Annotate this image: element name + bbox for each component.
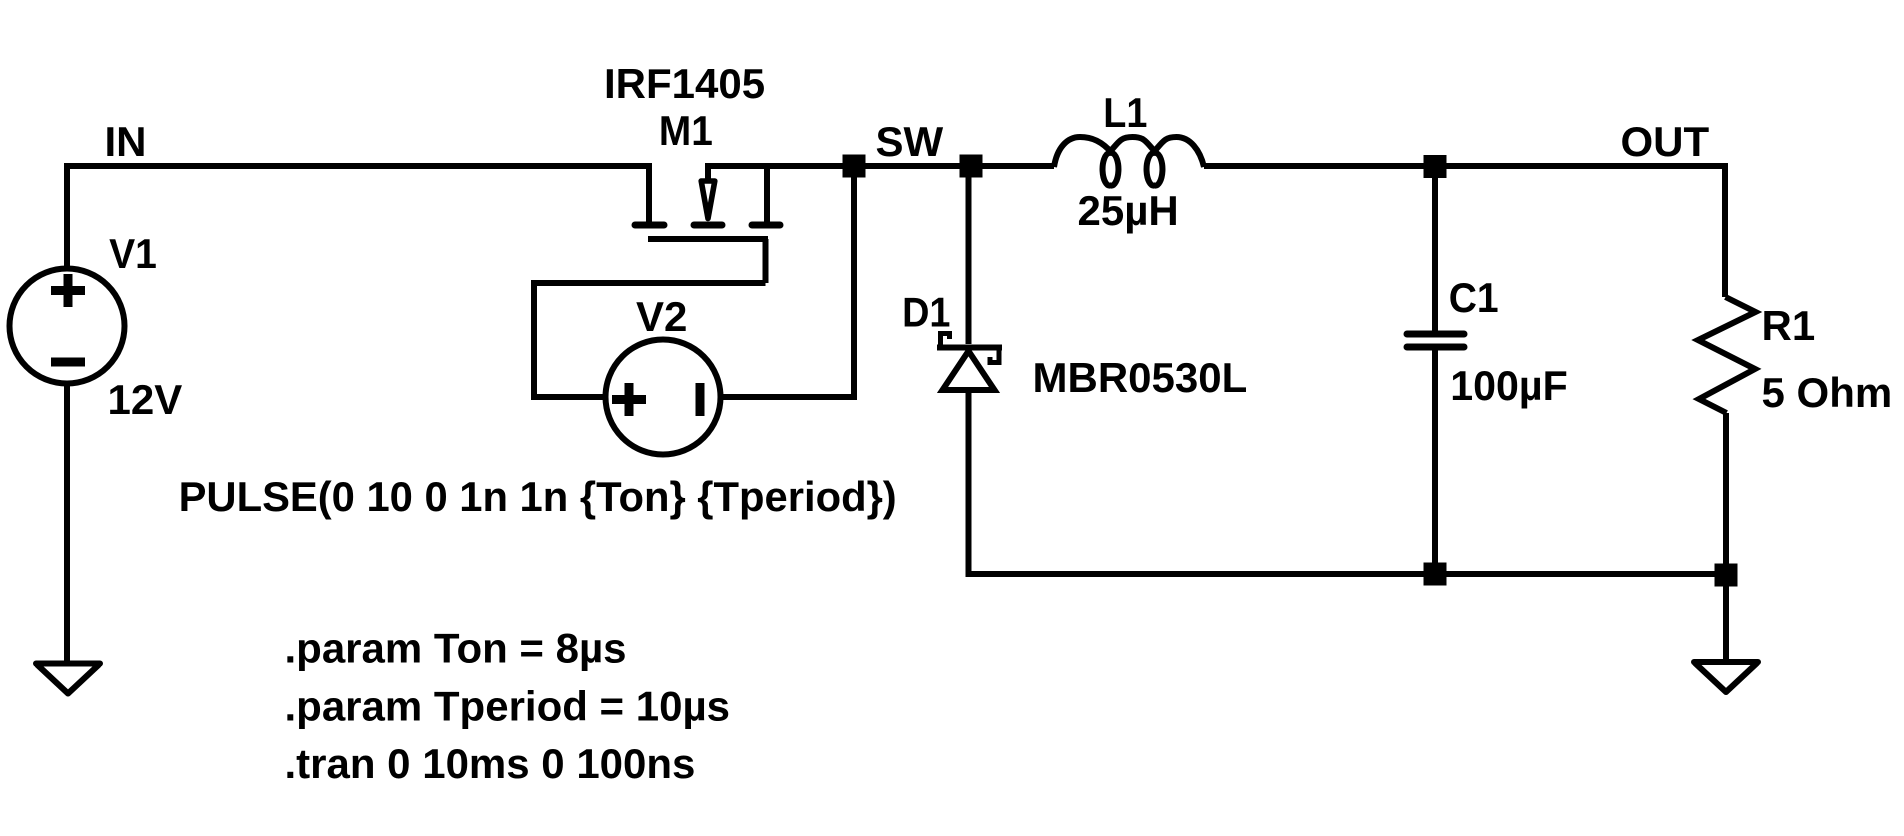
- V1 plus sign: [51, 274, 85, 307]
- wire OUT corner down to R1: [1722, 163, 1728, 297]
- transistor M1 source contact bar: [752, 222, 780, 229]
- svg-text:MBR0530L: MBR0530L: [1033, 354, 1248, 401]
- svg-text:V2: V2: [636, 293, 687, 340]
- svg-text:M1: M1: [659, 107, 713, 155]
- node junction square at R1 bottom: [1715, 564, 1738, 587]
- transistor M1 bulk arrow: [701, 181, 715, 219]
- svg-text:V1: V1: [109, 230, 157, 278]
- diode D1 cathode bar with schottky hooks: [937, 345, 1002, 351]
- V2 plus sign: [612, 383, 646, 416]
- transistor M1 bulk stub: [705, 163, 711, 180]
- wire gate left vertical: [531, 280, 537, 397]
- wire ground lead right: [1723, 586, 1729, 661]
- wire D1 bottom lead: [966, 390, 972, 574]
- V1 minus sign: [51, 358, 85, 367]
- node junction square at C1 bottom: [1424, 563, 1447, 586]
- svg-text:R1: R1: [1762, 302, 1816, 349]
- wire L1 to C1: [1204, 163, 1725, 169]
- wire IN top horizontal: [67, 163, 649, 169]
- resistor R1 zigzag: [1698, 297, 1756, 413]
- capacitor C1 top plate: [1407, 331, 1464, 338]
- wire C1 bottom lead: [1432, 347, 1438, 574]
- svg-text:25µH: 25µH: [1078, 187, 1179, 234]
- node junction square at C1 top: [1424, 155, 1447, 178]
- svg-text:100µF: 100µF: [1450, 362, 1568, 409]
- wire D1 top lead: [966, 166, 972, 344]
- wire ground bus bottom: [969, 571, 1727, 574]
- svg-text:IRF1405: IRF1405: [604, 60, 765, 107]
- wire SW down to V2: [851, 166, 857, 397]
- transistor M1 drain stub: [646, 163, 652, 222]
- wire C1 top lead: [1432, 166, 1438, 331]
- voltage source V1: [10, 269, 125, 384]
- ground right: [1694, 659, 1758, 665]
- svg-text:.param Ton = 8µs: .param Ton = 8µs: [285, 625, 627, 672]
- voltage source V2: [606, 340, 721, 455]
- diode D1 triangle: [943, 351, 995, 390]
- svg-text:IN: IN: [105, 118, 147, 165]
- inductor L1 coil: [1054, 137, 1204, 186]
- transistor M1 source stub: [764, 163, 770, 222]
- V2 minus sign (rotated): [696, 383, 705, 416]
- svg-text:.param Tperiod = 10µs: .param Tperiod = 10µs: [285, 683, 731, 730]
- node SW junction square: [843, 155, 866, 178]
- ground V1: [36, 661, 100, 667]
- wire R1 bottom lead: [1723, 413, 1729, 575]
- node junction square at D1: [960, 155, 983, 178]
- transistor M1 drain contact bar: [635, 222, 664, 229]
- wire V2 right lead: [721, 394, 857, 400]
- svg-text:12V: 12V: [108, 376, 183, 423]
- svg-text:PULSE(0 10 0 1n 1n {Ton} {Tper: PULSE(0 10 0 1n 1n {Ton} {Tperiod}): [179, 473, 897, 520]
- wire gate horizontal: [534, 280, 766, 286]
- transistor M1 bulk contact bar: [694, 222, 722, 229]
- transistor M1 gate bar: [648, 236, 768, 242]
- wire SW horizontal: [854, 163, 1054, 169]
- svg-text:.tran 0 10ms 0 100ns: .tran 0 10ms 0 100ns: [285, 740, 696, 787]
- wire source to SW: [708, 163, 854, 169]
- svg-text:C1: C1: [1449, 274, 1499, 322]
- capacitor C1 bottom plate: [1407, 344, 1464, 351]
- svg-text:5 Ohm: 5 Ohm: [1762, 369, 1893, 416]
- svg-text:L1: L1: [1103, 90, 1147, 136]
- svg-text:SW: SW: [876, 118, 944, 165]
- wire V1 top lead: [64, 163, 70, 267]
- wire V2 left lead: [531, 394, 605, 400]
- svg-text:D1: D1: [902, 290, 950, 336]
- svg-text:OUT: OUT: [1621, 118, 1710, 165]
- wire V1 bottom lead: [64, 384, 70, 663]
- wire gate lead down: [763, 239, 769, 283]
